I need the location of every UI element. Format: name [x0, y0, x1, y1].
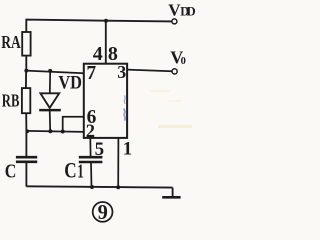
scan noise speckles (decorative) — [158, 125, 192, 128]
wire node to RB top — [25, 71, 27, 89]
diode VD anode lead — [49, 71, 51, 94]
svg-text:7: 7 — [86, 63, 96, 84]
wire rail down to capacitor C — [25, 131, 27, 156]
terminal VDD — [172, 19, 177, 24]
wire pin 3 output — [127, 70, 172, 72]
wire pin 8 vertical — [105, 21, 107, 64]
diode VD cathode bar — [39, 109, 61, 112]
capacitor C bottom plate — [16, 161, 37, 164]
wire RB bottom to lower rail — [25, 113, 27, 131]
node diode top junction — [48, 69, 52, 73]
diode VD cathode lead — [49, 110, 52, 131]
capacitor C top plate — [16, 156, 37, 159]
wire VDD top rail — [26, 20, 171, 33]
node pin6 junction — [61, 130, 65, 134]
node RA/RB junction — [24, 69, 28, 73]
capacitor C1 bottom plate — [79, 161, 103, 164]
svg-text:C: C — [5, 160, 17, 182]
capacitor C1 top plate — [79, 156, 103, 159]
svg-text:3: 3 — [117, 62, 126, 82]
wire RA bottom to node — [25, 56, 27, 71]
svg-text:1: 1 — [77, 160, 84, 182]
node pin1 ground junction — [116, 185, 120, 189]
op-amp U1 555 timer box — [84, 64, 127, 138]
wire pin 1 vertical — [117, 138, 119, 187]
svg-text:0: 0 — [181, 56, 186, 67]
wire pin 5 vertical — [89, 138, 91, 156]
svg-text:C: C — [64, 157, 76, 182]
svg-text:RB: RB — [2, 90, 20, 110]
svg-text:9: 9 — [98, 200, 108, 224]
ground symbol — [172, 188, 174, 197]
terminal V0 — [172, 69, 177, 74]
node C1 ground junction — [90, 185, 94, 189]
node junction top rail / pin 8 — [104, 19, 108, 23]
wire bottom ground rail — [26, 186, 172, 187]
node RB/C junction — [25, 129, 29, 133]
blue watermark marks — [124, 96, 125, 104]
svg-text:VD: VD — [58, 73, 82, 94]
svg-text:4: 4 — [93, 43, 103, 65]
wire node row to pin 7 — [26, 71, 84, 74]
wire C bottom to ground rail — [25, 162, 27, 186]
svg-text:DD: DD — [180, 5, 196, 19]
wire pin 6 L-link — [63, 117, 84, 132]
figure number circle 9 — [93, 202, 113, 222]
resistor RA — [22, 32, 30, 56]
diode VD triangle — [40, 93, 59, 108]
svg-text:1: 1 — [123, 139, 133, 160]
node diode bottom junction — [48, 129, 52, 133]
wire lower rail to pin 2 — [26, 131, 83, 132]
background paper — [0, 0, 200, 225]
resistor RB — [22, 88, 30, 113]
wire C1 bottom to ground rail — [90, 162, 93, 187]
svg-text:RA: RA — [1, 32, 21, 52]
